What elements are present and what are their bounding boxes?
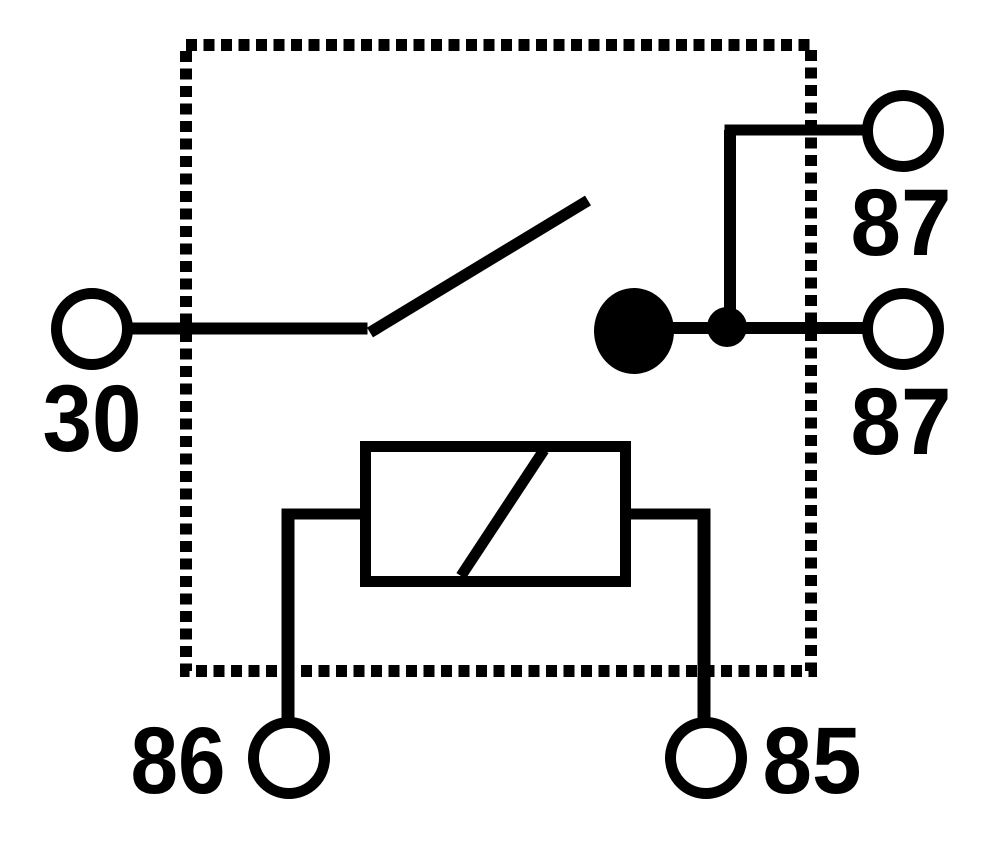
coil diagonal stripe [461, 450, 544, 576]
svg-text:30: 30 [43, 366, 142, 472]
junction node dot [707, 307, 747, 347]
wire: coil right lead vertical down to terminal 85 [698, 509, 711, 723]
relay body dashed outline K1 [186, 45, 811, 671]
terminal circle 86 [254, 723, 325, 794]
svg-text:87: 87 [851, 170, 952, 276]
wire: coil left lead horizontal [288, 509, 366, 520]
wire: terminal 30 to switch pivot [127, 323, 368, 335]
terminal circle 87 top [868, 96, 939, 167]
fixed contact (large filled dot) [594, 288, 674, 374]
terminal circle 30 [57, 294, 128, 365]
wire: coil left lead vertical down to terminal 86 [282, 509, 295, 723]
wire: junction up to top run [724, 130, 736, 328]
terminal circle 87 bottom [868, 294, 939, 365]
wire: contact dot to terminal 87 (NO, bottom) [650, 322, 866, 334]
wire: top run to terminal 87 (top) [725, 125, 867, 136]
switch blade SW1 (common from 30) [370, 201, 588, 333]
svg-text:85: 85 [763, 708, 862, 814]
svg-text:87: 87 [851, 369, 952, 475]
svg-text:86: 86 [131, 708, 226, 814]
terminal circle 85 [671, 723, 742, 794]
coil L1 (rectangle) [366, 447, 626, 582]
wire: coil right lead horizontal [625, 509, 704, 520]
